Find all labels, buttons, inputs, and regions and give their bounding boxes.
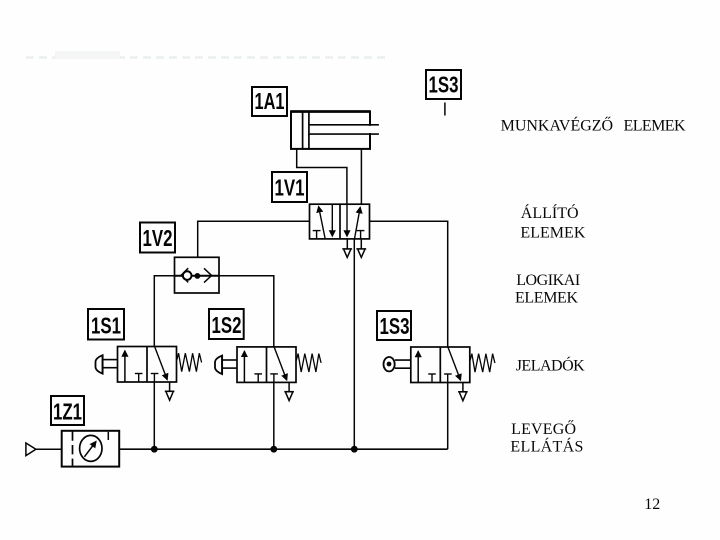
1S3 body xyxy=(411,347,470,383)
valve 1S1 xyxy=(96,347,202,401)
position marker 1S3 xyxy=(444,103,446,116)
svg-text:1Z1: 1Z1 xyxy=(53,399,82,425)
wire 1V1 supply port 1 to manifold xyxy=(353,239,355,449)
1S2 exhaust triangle xyxy=(288,382,290,391)
1S1 left chamber flow arrow xyxy=(124,351,126,382)
svg-text:ELEMEK: ELEMEK xyxy=(624,118,686,135)
1V2 left seat xyxy=(181,268,188,282)
label 1S2 xyxy=(209,309,244,339)
wire source to 1Z1 xyxy=(36,448,62,450)
svg-text:LEVEGŐ: LEVEGŐ xyxy=(511,419,576,438)
1V2 ball xyxy=(183,271,192,280)
1S2 right chamber blocked T xyxy=(270,373,278,375)
wire 1S3 supply to manifold xyxy=(447,383,449,450)
1S3 roller actuator xyxy=(384,357,395,371)
svg-text:LOGIKAI: LOGIKAI xyxy=(516,272,580,289)
1Z1 regulator tick xyxy=(107,432,109,440)
piston rod 1A1 xyxy=(368,126,372,133)
1V1 exhaust port 3 triangle xyxy=(356,239,366,258)
supply manifold wire xyxy=(119,448,448,450)
1V1 right chamber flow arrow up xyxy=(355,207,361,239)
svg-text:1S3: 1S3 xyxy=(380,313,410,339)
svg-text:ELLÁTÁS: ELLÁTÁS xyxy=(510,437,583,456)
1S1 body xyxy=(118,347,177,383)
1S3 exhaust triangle xyxy=(462,383,464,392)
valve 1S2 xyxy=(215,347,321,401)
svg-text:1A1: 1A1 xyxy=(255,88,285,114)
1S1 left chamber blocked T xyxy=(135,373,143,375)
label 1Z1 xyxy=(51,396,84,425)
air source triangle xyxy=(26,443,36,456)
1S2 body xyxy=(237,347,296,383)
pilot wire 1V2 output to 1V1 left pilot xyxy=(198,221,310,275)
1V1 left chamber flow arrow up xyxy=(319,207,326,239)
1S1 push button actuator xyxy=(96,355,103,374)
scan smudge artifact xyxy=(26,51,390,59)
svg-text:1V1: 1V1 xyxy=(275,175,305,201)
1S1 exhaust triangle xyxy=(169,382,171,391)
1V2 through line xyxy=(175,275,220,277)
1S3 right chamber blocked T xyxy=(444,373,452,375)
svg-text:1S1: 1S1 xyxy=(91,313,121,339)
wire cylinder right port to 1V1 port 2 xyxy=(360,149,362,204)
label 1A1 xyxy=(252,87,287,116)
label 1S3 bottom xyxy=(377,311,411,340)
label 1S1 xyxy=(88,309,124,340)
1S1 right chamber diagonal arrow xyxy=(155,347,168,380)
junction dot at 1S2 xyxy=(270,446,277,453)
1V1 right chamber flow arrow down xyxy=(346,204,348,236)
valve 1S3 xyxy=(384,347,495,401)
1S2 left chamber blocked T xyxy=(254,373,262,375)
1V1 right chamber blocked port T xyxy=(357,231,365,239)
cylinder 1A1 xyxy=(291,111,379,150)
1S3 left chamber blocked T xyxy=(428,373,436,375)
1S3 left chamber flow arrow xyxy=(417,351,419,382)
air service unit 1Z1 xyxy=(62,431,119,467)
shuttle valve 1V2 xyxy=(175,257,220,293)
1V2 output node dot xyxy=(195,273,201,279)
1S1 right chamber blocked T xyxy=(151,373,159,375)
svg-text:ÁLLÍTÓ: ÁLLÍTÓ xyxy=(521,203,579,222)
valve 1V1 body xyxy=(310,204,370,239)
1Z1 filter dashed line xyxy=(72,431,74,465)
svg-text:12: 12 xyxy=(644,496,660,513)
label 1V1 xyxy=(272,172,307,202)
label 1S3 top xyxy=(426,70,461,99)
svg-text:1V2: 1V2 xyxy=(143,225,173,251)
piston 1A1 xyxy=(302,111,304,150)
1V1 left chamber flow arrow down xyxy=(331,204,333,236)
pilot wire 1S3 output to 1V1 right pilot xyxy=(370,221,448,347)
svg-text:1S3: 1S3 xyxy=(429,72,459,98)
wire 1S1 output to 1V2 left input xyxy=(154,276,174,347)
1S3 return spring xyxy=(470,354,495,372)
svg-text:MUNKAVÉGZŐ: MUNKAVÉGZŐ xyxy=(501,116,613,135)
wire 1S2 output to 1V2 right input xyxy=(219,276,274,347)
1Z1 gauge xyxy=(80,435,102,461)
svg-text:JELADÓK: JELADÓK xyxy=(516,356,585,375)
1S2 right chamber diagonal arrow xyxy=(274,347,287,380)
svg-text:ELEMEK: ELEMEK xyxy=(520,225,585,242)
wire 1S2 supply to manifold xyxy=(273,382,275,449)
label 1V2 xyxy=(140,223,175,253)
1S2 push button actuator xyxy=(215,356,222,375)
wire cylinder left port to 1V1 port 4 xyxy=(297,149,347,204)
svg-text:1S2: 1S2 xyxy=(212,312,242,338)
1V2 right seat xyxy=(204,268,212,282)
1S3 right chamber diagonal arrow xyxy=(448,347,461,380)
1S1 return spring xyxy=(177,353,202,371)
1V1 left chamber blocked port T xyxy=(313,231,321,239)
svg-text:ELEMEK: ELEMEK xyxy=(515,290,578,307)
junction dot at 1V1 xyxy=(351,446,358,453)
1V1 exhaust port 5 triangle xyxy=(342,239,352,258)
junction dot at 1S1 xyxy=(151,446,158,453)
1S2 return spring xyxy=(296,354,321,372)
wire 1S1 supply to manifold xyxy=(153,382,155,449)
1S2 left chamber flow arrow xyxy=(243,351,245,382)
